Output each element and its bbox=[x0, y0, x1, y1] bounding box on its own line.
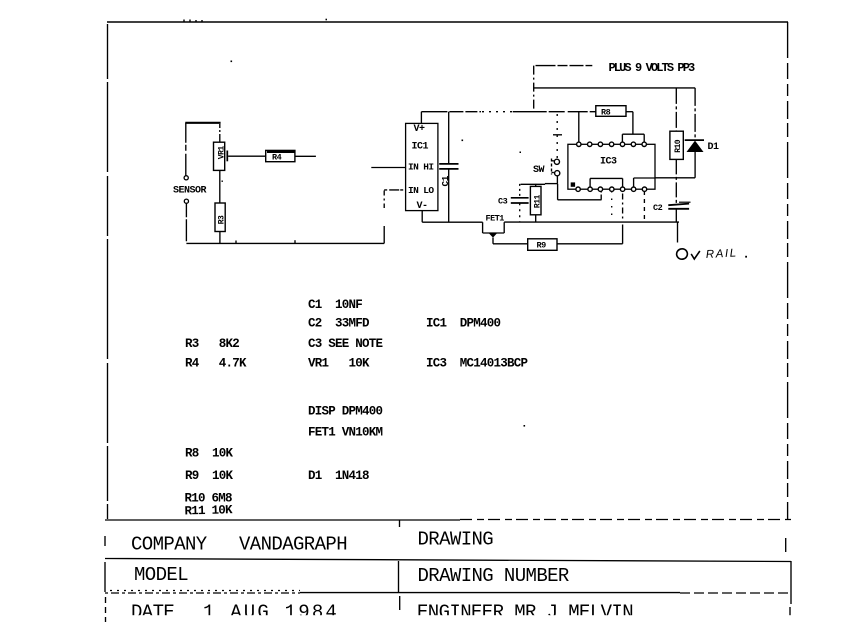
svg-text:C2 33MFD: C2 33MFD bbox=[308, 317, 370, 331]
svg-text:FET1: FET1 bbox=[486, 213, 505, 223]
svg-text:D1 1N418: D1 1N418 bbox=[308, 469, 369, 483]
svg-text:D1: D1 bbox=[708, 142, 720, 153]
svg-text:MODEL: MODEL bbox=[134, 564, 188, 586]
svg-text:VR1: VR1 bbox=[217, 146, 226, 160]
svg-text:R4 4.7K: R4 4.7K bbox=[185, 357, 247, 371]
svg-text:IN LO: IN LO bbox=[408, 185, 434, 196]
svg-text:FET1 VN10KM: FET1 VN10KM bbox=[308, 426, 383, 440]
svg-text:R9: R9 bbox=[537, 241, 547, 251]
svg-text:IC1: IC1 bbox=[412, 142, 429, 153]
svg-text:DISP DPM400: DISP DPM400 bbox=[308, 405, 383, 419]
svg-text:C3 SEE NOTE: C3 SEE NOTE bbox=[308, 337, 383, 351]
svg-text:R3: R3 bbox=[218, 215, 227, 224]
svg-text:IC1 DPM400: IC1 DPM400 bbox=[426, 317, 501, 331]
svg-text:VANDAGRAPH: VANDAGRAPH bbox=[239, 534, 347, 556]
svg-text:IC3 MC14013BCP: IC3 MC14013BCP bbox=[426, 357, 528, 371]
svg-text:IC3: IC3 bbox=[600, 157, 617, 168]
svg-text:C1 10NF: C1 10NF bbox=[308, 298, 362, 312]
svg-text:DRAWING: DRAWING bbox=[418, 529, 494, 551]
svg-text:V+: V+ bbox=[414, 124, 426, 135]
svg-text:DRAWING NUMBER: DRAWING NUMBER bbox=[418, 565, 569, 587]
svg-text:C1: C1 bbox=[440, 175, 451, 186]
svg-text:C2: C2 bbox=[653, 203, 663, 213]
svg-text:R3 8K2: R3 8K2 bbox=[185, 337, 239, 351]
svg-text:C3: C3 bbox=[498, 197, 508, 207]
svg-text:IN HI: IN HI bbox=[408, 161, 434, 172]
svg-text:PLUS 9 VOLTS PP3: PLUS 9 VOLTS PP3 bbox=[609, 61, 696, 75]
svg-text:R8: R8 bbox=[601, 108, 611, 118]
svg-text:SENSOR: SENSOR bbox=[173, 186, 207, 197]
svg-text:SW: SW bbox=[533, 165, 545, 176]
svg-text:R10: R10 bbox=[674, 139, 683, 153]
svg-text:VR1 10K: VR1 10K bbox=[308, 357, 370, 371]
svg-text:V-: V- bbox=[417, 201, 428, 212]
svg-text:RAIL: RAIL bbox=[706, 247, 739, 261]
svg-text:R9 10K: R9 10K bbox=[185, 469, 234, 483]
svg-text:R8 10K: R8 10K bbox=[185, 447, 234, 461]
svg-text:R4: R4 bbox=[272, 153, 282, 163]
svg-text:R11: R11 bbox=[533, 194, 542, 208]
svg-text:R11 10K: R11 10K bbox=[184, 503, 233, 518]
svg-text:COMPANY: COMPANY bbox=[131, 534, 208, 556]
